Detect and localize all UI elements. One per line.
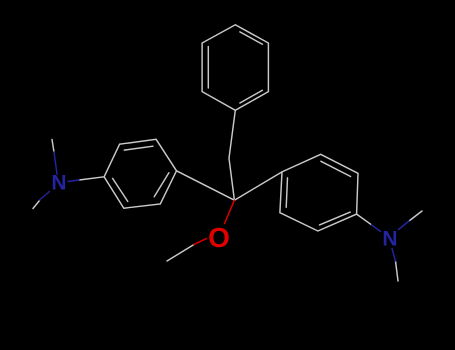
svg-text:O: O — [208, 222, 230, 253]
right N ring-bond blue part — [372, 225, 381, 232]
svg-text:N: N — [51, 172, 66, 195]
left N upper methyl blue part — [54, 152, 57, 174]
phenyl ring top — [202, 25, 268, 111]
right N upper methyl blue part — [399, 221, 410, 230]
left lower methyl white part — [33, 201, 40, 209]
right N-ring bond white part — [357, 214, 372, 225]
left upper methyl white part — [52, 140, 54, 153]
left benzene ring — [104, 139, 176, 208]
left N lower methyl blue part — [40, 192, 50, 201]
wire C-left ring bond — [177, 171, 235, 200]
left N ring-bond blue part — [68, 180, 79, 182]
right upper methyl white part — [409, 211, 422, 221]
right benzene ring — [280, 154, 358, 231]
left N-ring bond white part — [79, 177, 104, 180]
C-O bond red — [225, 200, 235, 223]
wire O-CH3 white part — [167, 245, 194, 262]
wire benzylic CH2 zigzag — [229, 110, 235, 200]
wire C-right ring bond — [234, 172, 282, 200]
right lower methyl white part — [396, 261, 399, 281]
O-CH3 bond red part — [194, 239, 207, 245]
right N lower methyl blue part — [392, 249, 396, 262]
svg-text:N: N — [382, 228, 397, 251]
